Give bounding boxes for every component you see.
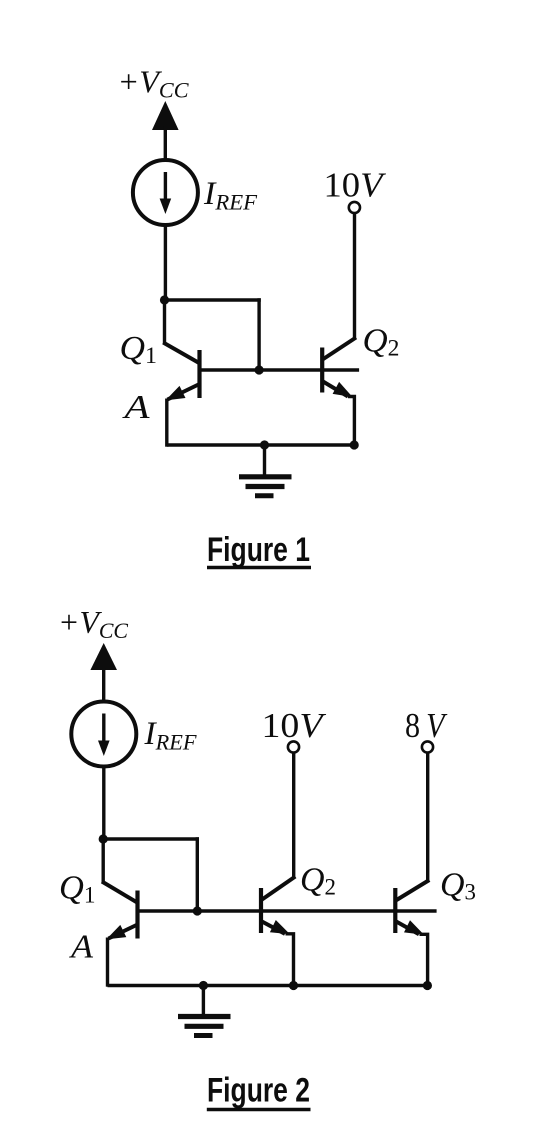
junction node at Q1 collector tap (Figure 2) xyxy=(99,834,108,843)
svg-text:Q1: Q1 xyxy=(59,870,96,908)
caption Figure 2 xyxy=(207,1072,311,1110)
junction node rail right end (Figure 1) xyxy=(350,440,359,449)
transistor Q3 emitter stroke (Figure 2) xyxy=(395,921,419,934)
wire: collector drop to Q1 (Figure 1) xyxy=(163,298,166,344)
output terminal node circle 8V (Figure 2) xyxy=(422,741,433,752)
transistor Q2 emitter arrow (Figure 1) xyxy=(333,382,353,397)
transistor Q1 collector stroke (Figure 1) xyxy=(163,343,200,364)
transistor Q2 emitter arrow (Figure 2) xyxy=(270,920,290,934)
svg-text:10V: 10V xyxy=(324,166,387,205)
wire: current source to node (Figure 1) xyxy=(164,225,167,301)
wire: feedback top horizontal (Figure 2) xyxy=(102,837,200,840)
transistor Q1 emitter arrow (Figure 2) xyxy=(106,925,126,940)
current source U-IREF circle (Figure 1) xyxy=(133,160,198,225)
output terminal node circle 10V (Figure 1) xyxy=(349,202,360,213)
transistor Q2 base bar (Figure 1) xyxy=(320,348,324,393)
wire: current source to node (Figure 2) xyxy=(102,767,105,841)
wire: feedback right vertical down to base rail (Figure 1) xyxy=(257,298,260,371)
wire: 10V terminal to Q2 collector (Figure 1) xyxy=(353,214,356,340)
wire: emitter ground rail (Figure 2) xyxy=(108,984,428,987)
svg-text:Q2: Q2 xyxy=(363,323,400,361)
transistor Q2 collector stroke (Figure 1) xyxy=(322,338,356,361)
wire: Q1 emitter to ground rail (Figure 2) xyxy=(106,938,109,987)
junction node on base rail (Figure 1) xyxy=(255,365,264,374)
wire: base rail Q1-Q2 (Figure 1) xyxy=(200,368,360,371)
svg-text:Q1: Q1 xyxy=(120,330,158,368)
transistor Q1 base bar (Figure 2) xyxy=(135,891,139,939)
junction node on base rail (Figure 2) xyxy=(193,906,202,915)
svg-text:Figure 2: Figure 2 xyxy=(207,1072,310,1110)
svg-text:10V: 10V xyxy=(262,706,327,745)
wire: Q2 emitter corner to ground rail (Figure 1) xyxy=(348,397,354,447)
wire: Q3 emitter corner to ground rail (Figure 2) xyxy=(420,934,428,986)
wire: base rail Q1-Q2-Q3 (Figure 2) xyxy=(138,909,437,912)
caption Figure 1 xyxy=(207,531,311,569)
wire: emitter ground rail (Figure 1) xyxy=(167,443,355,446)
transistor Q2 emitter stroke (Figure 1) xyxy=(322,381,348,397)
svg-text:Q3: Q3 xyxy=(440,867,476,905)
transistor Q2 emitter stroke (Figure 2) xyxy=(261,921,285,934)
svg-text:Figure 1: Figure 1 xyxy=(207,531,310,569)
svg-text:IREF: IREF xyxy=(203,176,258,215)
wire: Q1 emitter to ground rail (Figure 1) xyxy=(165,399,168,447)
ground symbol (Figure 1) xyxy=(239,445,292,496)
svg-text:IREF: IREF xyxy=(143,716,197,755)
transistor Q1 collector stroke (Figure 2) xyxy=(102,882,138,904)
junction node rail right end (Figure 2) xyxy=(423,981,432,990)
transistor Q3 emitter arrow (Figure 2) xyxy=(404,920,424,935)
transistor Q1 emitter stroke (Figure 1) xyxy=(168,384,200,400)
junction node ground tap (Figure 2) xyxy=(199,981,208,990)
junction node below Q2 (Figure 2) xyxy=(289,981,298,990)
current source U-IREF circle (Figure 2) xyxy=(71,702,136,767)
junction node ground tap (Figure 1) xyxy=(260,440,269,449)
svg-text:+VCC: +VCC xyxy=(118,64,189,103)
+Vcc supply arrow (Figure 1) xyxy=(152,101,179,161)
transistor Q3 collector stroke (Figure 2) xyxy=(395,880,429,901)
svg-text:A: A xyxy=(69,929,93,966)
svg-text:Q2: Q2 xyxy=(300,862,336,900)
svg-text:+VCC: +VCC xyxy=(58,604,128,643)
transistor Q2 collector stroke (Figure 2) xyxy=(261,877,296,901)
transistor Q2 base bar (Figure 2) xyxy=(259,888,263,933)
transistor Q1 base bar (Figure 1) xyxy=(197,350,201,398)
wire: 10V terminal to Q2 collector (Figure 2) xyxy=(292,753,295,878)
wire: collector drop to Q1 (Figure 2) xyxy=(101,837,104,883)
output terminal node circle 10V (Figure 2) xyxy=(288,741,299,752)
svg-text:8 V: 8 V xyxy=(405,706,448,745)
svg-text:A: A xyxy=(122,389,150,426)
transistor Q1 emitter arrow (Figure 1) xyxy=(166,386,186,401)
wire: 8V terminal to Q3 collector (Figure 2) xyxy=(426,753,429,882)
ground symbol (Figure 2) xyxy=(178,986,231,1036)
transistor Q3 base bar (Figure 2) xyxy=(393,888,397,933)
wire: feedback top horizontal (Figure 1) xyxy=(163,298,261,301)
transistor Q1 emitter stroke (Figure 2) xyxy=(109,925,138,939)
wire: feedback right vertical down to base rail (Figure 2) xyxy=(196,837,199,912)
wire: Q2 emitter corner to ground rail (Figure 2) xyxy=(286,934,294,987)
+Vcc supply arrow (Figure 2) xyxy=(90,643,117,702)
junction node at Q1 collector tap (Figure 1) xyxy=(160,295,169,304)
